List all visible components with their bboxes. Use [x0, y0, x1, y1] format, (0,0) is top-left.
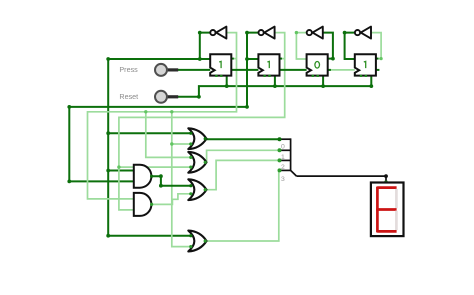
or gate OR1 [188, 231, 206, 252]
pin pads: XOR2 inputs and output [189, 156, 192, 159]
svg-text:1: 1 [281, 154, 285, 161]
wire: FF1 CLR drop [226, 76, 228, 87]
wire: Qbar1 pin jog into FF1 [231, 58, 236, 60]
pin: FF3 Q output dark nub under light wire [328, 69, 331, 71]
wire: net Q-bar-3 (dark) from FF3 Qbar pin up to inverter3 input [323, 33, 333, 59]
D flip-flop FF1 (value 1) [210, 54, 231, 77]
wire: Q1 output (dark) FF1 to FF2 clock [231, 69, 258, 71]
inverter U4 above FF4 [355, 27, 371, 39]
wire: Qbar2 pin jog into FF2 [280, 58, 285, 60]
segment c (bottom-right, unlit) [395, 211, 398, 230]
D flip-flop FF2 (value 1) [258, 54, 279, 77]
4-bit bus joiner connector [280, 138, 297, 176]
segment d (bottom, lit) [377, 230, 396, 233]
and gate AND1 [134, 165, 152, 188]
wire: XOR3 output (light) to bus pin 2 [205, 160, 280, 189]
pin pads: XOR1 inputs and output [189, 132, 192, 135]
wire: Qbar1 branch down x=145.8 to XOR2 input 1 [146, 112, 191, 158]
inverter U1 above FF1 [210, 27, 226, 39]
inverter U3 above FF3 [307, 27, 323, 39]
pin pads: XOR3 inputs and output [189, 184, 192, 187]
D flip-flop FF3 (value 0) [307, 54, 328, 77]
wire: Qbar1 branch right to XOR1 input 2 [172, 143, 191, 145]
xor gate XOR3 [188, 179, 206, 200]
wire: Q2 output (dark) FF2 to FF3 clock [280, 69, 307, 71]
wire: Q3 output (light) FF3 to FF4 clock [328, 69, 355, 71]
push-button: Reset [167, 95, 179, 98]
junction dots on Qbar1 net [144, 110, 147, 113]
pin: FF4 Qbar dark nub [376, 58, 379, 60]
wire: 4-bit bus (black) from joiner to display [297, 176, 387, 182]
wire: Qbar2 branch right to XOR2 input 2 [119, 166, 190, 168]
7-segment display U5 [371, 183, 404, 237]
svg-text:3: 3 [281, 176, 285, 183]
segment a (top, lit) [377, 186, 396, 189]
pin pads: AND outputs [150, 175, 153, 178]
wire: net D3 (light) inverter3 output down to FF3 D [296, 33, 306, 59]
svg-text:Reset: Reset [119, 92, 138, 101]
svg-text:Press: Press [119, 65, 138, 74]
segment e (bottom-left, lit) [376, 209, 379, 233]
wire: net Q-bar-1 (light) from FF1 Qbar pin up to inverter1 input and down to gates [88, 33, 237, 199]
D flip-flop FF4 (value 1) [355, 54, 376, 77]
junction dots on D1 net [198, 31, 202, 35]
junction dot at reset wire corner [197, 95, 201, 99]
inverter U2 above FF2 [259, 27, 275, 39]
wire: D1 branch to AND1 input 1 [108, 170, 134, 172]
segment b (top-right, unlit) [395, 189, 398, 208]
wire: Press button net (dark) from button stub to FF1 clock [177, 69, 211, 71]
pin: FF2 Qbar dark nub [280, 58, 283, 60]
wire: FF2 CLR drop [274, 76, 276, 87]
wire: D2 stub into FF2 D [247, 58, 258, 60]
display input pin nub (green) [384, 181, 387, 184]
xor gate XOR2 [188, 152, 206, 173]
wire: AND1 output (dark) to XOR3 input 1 [151, 176, 190, 186]
segment f (top-left, lit) [376, 187, 379, 211]
wire: FF4 CLR drop [370, 76, 372, 87]
wire: net D4 (dark) inverter4 output down to FF4 D [345, 33, 355, 59]
and gate AND2 [134, 193, 152, 216]
pin pads: OR1 inputs and output [189, 234, 192, 237]
wire: Qbar1 branch down x=171.8 to XOR1.in2 and OR.in2 [172, 112, 191, 247]
bus pin dots [278, 137, 282, 141]
wire: net D1 (dark) inverter1 output down to FF1 D, long rail left+down feeding XOR1.in1, AND1.in1, OR.in1 [200, 33, 210, 59]
wire: Reset button net (dark): right, up, then clear rail along y=86 to all flip-flop CLR pins [177, 86, 372, 97]
junction dots on reset rail [225, 84, 229, 88]
wire: XOR2 output (light) to bus pin 1 [205, 150, 280, 162]
pin: FF1 Qbar dark nub [231, 58, 234, 60]
junction dots on D2 net [245, 31, 249, 35]
xor gate XOR1 [188, 128, 206, 149]
wire: AND2 output (light) to XOR3 input 2 [151, 194, 190, 205]
wire: FF3 CLR drop [322, 76, 324, 87]
wire: OR output (light) up to bus pin 3 [205, 170, 280, 241]
wire: XOR1 output (dark) to bus pin 0 [205, 138, 280, 140]
wire: D1 branch to XOR1 input 1 [108, 132, 190, 134]
pin: Q4 output nub (dark, unconnected) [376, 69, 380, 71]
wire: net Q-bar-2 (light) from FF2 Qbar pin up to inverter2 input and down to gates [119, 33, 285, 210]
junction dot inverter3 output corner [295, 31, 298, 34]
wire: net Q-bar-4 (light) from FF4 Qbar pin up to inverter4 input [371, 33, 381, 59]
segment g (middle, lit) [377, 208, 396, 211]
svg-text:2: 2 [281, 164, 285, 171]
push-button: Press [167, 68, 179, 71]
wire: net D2 (dark) inverter2 output down to FF2 D, rail left at y=107 then down x=69 to AND1 input 2 [69, 33, 258, 182]
svg-text:0: 0 [281, 144, 285, 151]
